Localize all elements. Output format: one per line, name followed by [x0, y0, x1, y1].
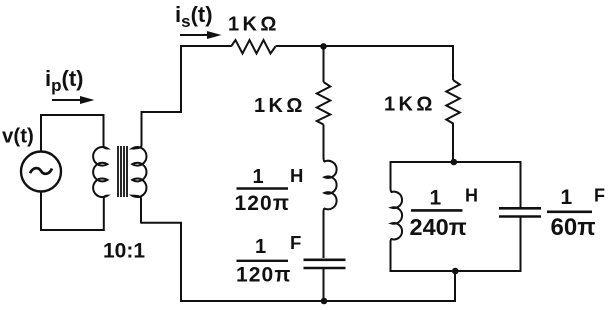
svg-text:H: H	[290, 165, 303, 186]
wire tank left upper	[390, 161, 392, 188]
svg-text:120π: 120π	[236, 264, 292, 287]
svg-text:1KΩ: 1KΩ	[254, 95, 306, 117]
svg-text:1: 1	[253, 166, 264, 188]
label fraction 1/120pi F	[236, 232, 301, 287]
svg-text:60π: 60π	[551, 214, 596, 241]
wire middle branch upper	[323, 46, 325, 82]
node junction tank top	[451, 159, 458, 166]
resistor R3 1KOhm right vertical	[446, 80, 460, 126]
label fraction 1/120pi H	[235, 165, 304, 215]
wire middle branch between L1 and C1	[323, 218, 325, 258]
node junction tank bottom	[452, 268, 459, 275]
wire tank bottom rail	[390, 270, 521, 272]
wire primary top	[40, 114, 104, 116]
wire tank bottom to main bottom	[454, 271, 456, 302]
wire middle branch lower	[323, 268, 325, 301]
capacitor C2	[499, 208, 541, 216]
wire primary bottom	[40, 229, 105, 231]
svg-text:10:1: 10:1	[103, 240, 145, 263]
wire bottom main	[181, 300, 456, 302]
wire tank left lower	[390, 242, 392, 272]
svg-text:ip(t): ip(t)	[45, 66, 84, 95]
svg-text:120π: 120π	[235, 192, 291, 215]
svg-text:F: F	[290, 232, 301, 253]
svg-text:H: H	[465, 186, 478, 206]
inductor L2	[391, 188, 403, 243]
svg-text:is(t): is(t)	[175, 2, 213, 31]
transformer secondary coil	[132, 111, 146, 224]
wire top left segment	[180, 45, 231, 47]
svg-text:1: 1	[561, 186, 573, 209]
label fraction 1/60pi F	[547, 186, 605, 242]
wire tank right lower	[520, 217, 522, 273]
wire secondary bottom jog	[141, 223, 181, 302]
wire primary left upper	[40, 114, 42, 152]
svg-text:1KΩ: 1KΩ	[228, 14, 280, 36]
wire secondary top jog	[142, 45, 182, 112]
svg-text:F: F	[594, 186, 605, 206]
wire right branch lower	[452, 126, 454, 162]
arrow is	[180, 31, 222, 39]
node junction top middle	[320, 43, 327, 50]
transformer core	[118, 146, 127, 197]
voltage source V1	[21, 152, 61, 192]
wire top middle segment	[276, 45, 454, 47]
svg-text:240π: 240π	[410, 214, 467, 240]
wire tank top rail	[390, 161, 521, 163]
svg-text:1: 1	[255, 236, 266, 258]
capacitor C1	[304, 260, 346, 268]
resistor R2 1KOhm middle vertical	[317, 82, 331, 125]
arrow ip	[52, 96, 95, 104]
wire right branch upper	[452, 45, 454, 80]
wire middle branch between R2 and L1	[323, 125, 325, 149]
inductor L1	[324, 148, 337, 218]
wire primary left lower	[40, 192, 42, 232]
svg-text:1KΩ: 1KΩ	[384, 94, 436, 116]
label fraction 1/240pi H	[410, 186, 479, 241]
node junction bottom middle	[321, 298, 328, 305]
transformer primary coil	[93, 114, 107, 231]
svg-text:v(t): v(t)	[2, 125, 34, 148]
svg-text:1: 1	[430, 187, 442, 210]
resistor R1 1KOhm horizontal	[231, 40, 276, 54]
wire tank right upper	[520, 161, 522, 207]
